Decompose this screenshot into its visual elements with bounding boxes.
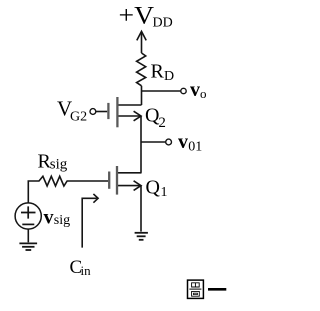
svg-text:o: o bbox=[200, 86, 207, 101]
svg-text:DD: DD bbox=[153, 16, 173, 31]
svg-text:2: 2 bbox=[158, 115, 166, 131]
svg-text:1: 1 bbox=[161, 185, 168, 200]
svg-text:R: R bbox=[151, 61, 165, 83]
svg-text:+V: +V bbox=[119, 2, 155, 29]
svg-text:G2: G2 bbox=[70, 110, 87, 125]
svg-text:v: v bbox=[190, 79, 200, 101]
svg-text:v: v bbox=[178, 131, 188, 153]
svg-text:D: D bbox=[164, 69, 174, 84]
svg-text:sig: sig bbox=[50, 157, 68, 173]
svg-text:Q: Q bbox=[146, 176, 161, 198]
svg-text:01: 01 bbox=[188, 140, 202, 155]
svg-text:in: in bbox=[81, 263, 92, 278]
svg-text:sig: sig bbox=[54, 213, 70, 228]
svg-text:v: v bbox=[44, 206, 54, 228]
